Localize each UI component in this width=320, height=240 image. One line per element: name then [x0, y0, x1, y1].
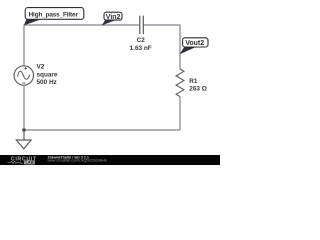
footer logo LAB box	[24, 161, 35, 165]
svg-text:Vin2: Vin2	[106, 14, 121, 21]
label C2 1.63 nF	[130, 37, 152, 52]
svg-text:263 Ω: 263 Ω	[189, 86, 207, 93]
footer bar	[0, 155, 220, 165]
wire left vertical from corner to source	[23, 25, 25, 66]
wire right vertical upper	[179, 25, 181, 70]
wire top horizontal left of capacitor	[24, 24, 139, 26]
wire top-left corner	[23, 24, 25, 26]
svg-text:500 Hz: 500 Hz	[37, 79, 57, 86]
svg-text:LAB: LAB	[26, 161, 34, 165]
wire right vertical lower	[179, 97, 181, 130]
svg-text:1.63 nF: 1.63 nF	[130, 45, 152, 52]
svg-text:square: square	[37, 71, 58, 78]
resistor R1	[176, 69, 184, 97]
ground	[16, 130, 31, 149]
wire bottom horizontal	[24, 129, 180, 131]
wire left vertical from source to junction	[23, 85, 25, 130]
label V2 square 500 Hz	[37, 63, 58, 86]
flag Vout2	[180, 38, 208, 55]
svg-text:V2: V2	[37, 63, 45, 70]
junction node	[22, 128, 26, 132]
flag Vin2	[102, 12, 122, 25]
svg-text:C2: C2	[137, 37, 146, 44]
wire top horizontal right of capacitor	[144, 24, 180, 26]
svg-text:www.circuitlab.com/c/kg59c32e9: www.circuitlab.com/c/kg59c32e98k4e	[48, 159, 108, 163]
svg-text:R1: R1	[189, 78, 198, 85]
flag High_pass_Filter	[24, 8, 84, 26]
capacitor C2	[140, 16, 144, 34]
footer logo resistor squiggle	[8, 161, 27, 163]
svg-text:Vout2: Vout2	[185, 40, 204, 47]
svg-text:High_pass_Filter: High_pass_Filter	[29, 11, 79, 18]
label R1 263 ohm	[189, 78, 207, 93]
voltage source V2	[14, 66, 33, 85]
